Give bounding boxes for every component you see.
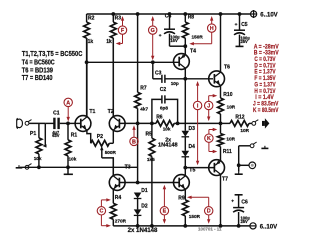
svg-text:270R: 270R — [115, 219, 127, 224]
svg-text:1k5: 1k5 — [147, 157, 155, 162]
svg-text:T6 = BD139: T6 = BD139 — [22, 67, 53, 74]
svg-text:T5: T5 — [189, 168, 195, 174]
svg-text:R4: R4 — [115, 195, 122, 201]
svg-text:63V: 63V — [52, 133, 60, 138]
svg-text:I = 1.4V: I = 1.4V — [255, 95, 273, 101]
svg-text:2x 1N4148: 2x 1N4148 — [128, 228, 158, 234]
svg-text:T4: T4 — [190, 49, 196, 55]
svg-text:R2: R2 — [88, 16, 95, 22]
svg-text:C1: C1 — [53, 111, 60, 117]
svg-text:4k7: 4k7 — [140, 107, 148, 112]
svg-text:16V: 16V — [170, 38, 178, 43]
svg-text:D3: D3 — [189, 126, 196, 132]
svg-text:10R: 10R — [226, 137, 235, 142]
svg-text:C: C — [99, 209, 103, 215]
svg-text:C6: C6 — [241, 200, 248, 206]
svg-text:T4 = BC560C: T4 = BC560C — [22, 59, 55, 66]
svg-text:B = -33mV: B = -33mV — [254, 51, 279, 57]
svg-text:R11: R11 — [223, 149, 232, 155]
svg-text:C3: C3 — [155, 71, 162, 77]
svg-text:D2: D2 — [141, 203, 148, 209]
svg-text:T1: T1 — [89, 109, 95, 115]
svg-text:10k: 10k — [69, 156, 77, 161]
svg-text:K: K — [207, 136, 211, 142]
svg-text:1k: 1k — [106, 39, 112, 45]
svg-text:B: B — [132, 139, 136, 145]
svg-text:500R: 500R — [105, 150, 117, 155]
svg-text:+: + — [231, 200, 234, 205]
svg-text:R3: R3 — [115, 16, 122, 22]
svg-text:P2: P2 — [97, 134, 103, 140]
svg-text:G = 1.37V: G = 1.37V — [254, 82, 275, 88]
svg-text:+: + — [235, 23, 238, 28]
svg-text:T6: T6 — [224, 65, 230, 71]
svg-text:J = 83.5mV: J = 83.5mV — [253, 101, 278, 107]
svg-text:K = 80.5mV: K = 80.5mV — [253, 108, 278, 114]
svg-text:D = 0.71V: D = 0.71V — [254, 63, 275, 69]
svg-text:10k: 10k — [34, 156, 42, 161]
svg-text:150R: 150R — [189, 214, 201, 219]
svg-text:A: A — [66, 100, 70, 106]
svg-text:R8: R8 — [188, 15, 195, 21]
svg-text:F = 1.35V: F = 1.35V — [254, 76, 275, 82]
svg-text:R1: R1 — [71, 132, 78, 138]
svg-text:6..10V: 6..10V — [260, 223, 278, 230]
svg-text:D1: D1 — [141, 188, 148, 194]
svg-text:R9: R9 — [178, 196, 185, 202]
svg-text:H: H — [210, 26, 214, 32]
svg-text:E: E — [163, 209, 167, 215]
svg-text:G: G — [151, 28, 155, 34]
svg-text:R10: R10 — [223, 92, 232, 98]
svg-text:H = 0.71V: H = 0.71V — [254, 89, 275, 95]
svg-text:R7: R7 — [140, 86, 147, 92]
svg-text:E = 1.37V: E = 1.37V — [254, 70, 275, 76]
svg-text:1N4148: 1N4148 — [158, 142, 178, 148]
svg-text:R12: R12 — [235, 114, 244, 120]
svg-text:P1: P1 — [30, 131, 36, 137]
svg-text:C4: C4 — [165, 14, 172, 20]
svg-text:6p8: 6p8 — [160, 106, 168, 111]
svg-text:T1,T2,T3,T5 = BC550C: T1,T2,T3,T5 = BC550C — [22, 51, 83, 58]
svg-text:D4: D4 — [189, 144, 196, 150]
svg-text:25V: 25V — [241, 39, 249, 44]
svg-text:J: J — [207, 103, 210, 109]
svg-text:25V: 25V — [241, 219, 249, 224]
svg-text:C2: C2 — [160, 87, 167, 93]
svg-text:6..10V: 6..10V — [260, 11, 278, 18]
svg-text:10R: 10R — [240, 128, 249, 133]
svg-text:C5: C5 — [241, 22, 248, 28]
svg-text:150R: 150R — [192, 35, 204, 40]
svg-text:100701 - 11: 100701 - 11 — [198, 227, 222, 232]
svg-text:R5: R5 — [146, 131, 153, 137]
svg-text:10p: 10p — [171, 81, 179, 86]
svg-text:1k: 1k — [88, 39, 94, 45]
svg-text:C = 0.73V: C = 0.73V — [254, 57, 275, 63]
svg-text:10k: 10k — [163, 126, 171, 131]
svg-text:A = -28mV: A = -28mV — [254, 44, 279, 50]
svg-text:10R: 10R — [227, 104, 236, 109]
svg-text:T7: T7 — [222, 176, 228, 182]
svg-text:D: D — [207, 209, 211, 215]
svg-text:R6: R6 — [156, 115, 163, 121]
svg-text:T7 = BD140: T7 = BD140 — [22, 75, 53, 82]
svg-text:+: + — [159, 34, 162, 39]
